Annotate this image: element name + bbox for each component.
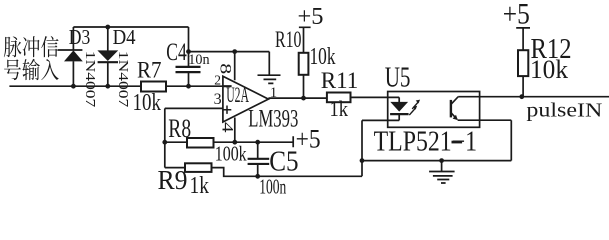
svg-text:D3: D3 [69, 25, 91, 49]
svg-text:U2A: U2A [226, 82, 249, 107]
svg-text:+5: +5 [503, 0, 530, 31]
svg-text:+5: +5 [298, 3, 324, 30]
svg-text:R7: R7 [137, 58, 162, 83]
svg-text:10k: 10k [310, 43, 337, 70]
svg-text:R11: R11 [321, 68, 359, 94]
svg-text:1k: 1k [190, 173, 210, 198]
svg-text:1N4007: 1N4007 [83, 51, 98, 108]
svg-text:100k: 100k [215, 141, 247, 165]
svg-text:100n: 100n [259, 174, 286, 198]
svg-text:10k: 10k [133, 90, 162, 116]
svg-text:+5: +5 [296, 125, 321, 154]
svg-text:U5: U5 [385, 62, 411, 94]
svg-text:R10: R10 [275, 27, 302, 52]
svg-text:4: 4 [219, 122, 236, 133]
svg-text:10n: 10n [188, 52, 210, 68]
svg-text:R8: R8 [168, 114, 191, 143]
svg-text:8: 8 [217, 63, 234, 74]
svg-text:2: 2 [214, 72, 221, 87]
svg-text:1k: 1k [330, 96, 349, 121]
svg-text:pulseIN: pulseIN [526, 100, 602, 122]
svg-text:D4: D4 [113, 25, 136, 49]
svg-text:1: 1 [270, 85, 277, 101]
svg-text:C5: C5 [269, 146, 298, 178]
svg-text:C4: C4 [166, 37, 187, 66]
svg-text:LM393: LM393 [248, 106, 298, 133]
svg-text:3: 3 [214, 91, 222, 108]
svg-text:1N4007: 1N4007 [116, 51, 131, 108]
svg-text:TLP521−1: TLP521−1 [374, 127, 478, 158]
svg-text:R9: R9 [158, 165, 188, 195]
svg-text:10k: 10k [530, 55, 568, 84]
